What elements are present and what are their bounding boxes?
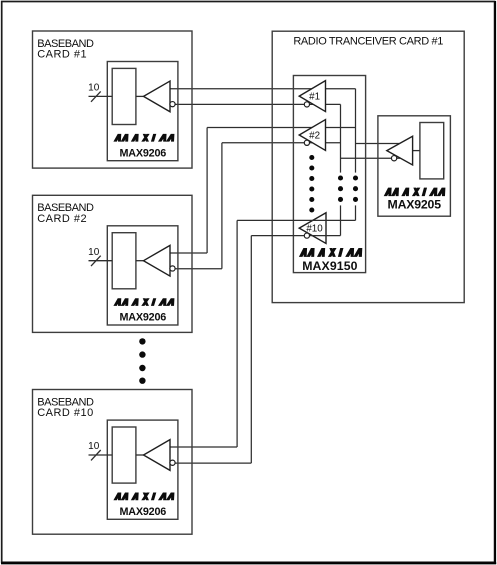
wire block to receiver U10 xyxy=(136,454,144,456)
differential pair wire card #1 bottom (MAX9150 #1 out- to U1 in-) xyxy=(175,103,340,105)
LVDS receiver triangle U10 xyxy=(144,440,171,471)
driver triangle #10 in MAX9150 xyxy=(299,213,326,244)
svg-text:10: 10 xyxy=(88,247,100,258)
LVDS receiver triangle U1 xyxy=(144,81,171,112)
svg-text:MAX9206: MAX9206 xyxy=(119,312,166,324)
differential pair wire card #1 top (MAX9150 #1 out+ to U1 in+) xyxy=(170,88,356,90)
svg-text:CARD #2: CARD #2 xyxy=(37,213,87,225)
differential pair wire card #2 bottom xyxy=(175,143,340,269)
svg-text:MAX9206: MAX9206 xyxy=(119,147,166,159)
inverting input bubble U2 xyxy=(170,266,175,271)
repeater U4 MAX9150 outline xyxy=(293,76,365,273)
inverting input bubble U10 xyxy=(170,460,175,465)
output bubble driver #1 xyxy=(304,102,309,107)
svg-text:RADIO TRANCEIVER CARD #1: RADIO TRANCEIVER CARD #1 xyxy=(293,36,443,48)
svg-text:#10: #10 xyxy=(306,224,323,235)
svg-text:CARD #10: CARD #10 xyxy=(37,407,94,419)
serial input wire MAX9205 to bus top xyxy=(356,143,400,145)
wire block to receiver U1 xyxy=(136,95,144,97)
driver triangle U5 MAX9205 xyxy=(387,136,413,165)
MAXIM logo card #1 xyxy=(113,134,174,142)
wire block to receiver U2 xyxy=(136,260,144,262)
ellipsis dots bus line + xyxy=(353,175,358,202)
svg-text:10: 10 xyxy=(88,83,100,94)
label BASEBAND CARD #10 xyxy=(37,396,94,419)
driver triangle #2 in MAX9150 xyxy=(299,120,325,151)
MAXIM logo MAX9150 xyxy=(299,248,362,257)
differential pair wire card #2 top xyxy=(170,128,356,254)
input bus line + (node A) xyxy=(355,89,357,221)
MAXIM logo card #2 xyxy=(113,298,174,306)
bus-width slash U1 xyxy=(91,91,101,101)
svg-text:MAX9206: MAX9206 xyxy=(119,506,166,518)
MAXIM logo MAX9205 xyxy=(384,188,446,197)
output bubble driver #10 xyxy=(304,233,309,238)
serial input wire MAX9205 to bus bottom xyxy=(341,157,401,159)
label BASEBAND CARD #1 xyxy=(37,38,94,61)
10-bit parallel bus stub into U2 xyxy=(89,260,113,262)
ellipsis dots baseband cards 3-9 xyxy=(139,338,145,384)
svg-text:10: 10 xyxy=(88,441,100,452)
svg-text:MAX9150: MAX9150 xyxy=(302,259,357,273)
deserializer U10 MAX9206 outline xyxy=(107,420,178,519)
output bubble U5 xyxy=(391,156,396,161)
wire serializer block to driver U5 xyxy=(413,150,420,152)
differential pair wire card #10 bottom xyxy=(175,236,340,464)
driver triangle #1 in MAX9150 xyxy=(299,81,325,112)
10-bit parallel bus stub into U10 xyxy=(89,454,113,456)
radio tranceiver card #1 box xyxy=(272,31,464,302)
ellipsis dots drivers 3-9 xyxy=(309,155,314,213)
label BASEBAND CARD #2 xyxy=(37,202,94,225)
baseband card #2 box xyxy=(33,195,193,332)
MAXIM logo card #10 xyxy=(113,493,174,501)
input bus line - (node B) xyxy=(340,104,342,235)
LVDS receiver triangle U2 xyxy=(144,245,171,276)
svg-text:CARD #1: CARD #1 xyxy=(37,49,87,61)
parallel interface block of U10 xyxy=(112,427,136,483)
differential pair wire card #10 top xyxy=(170,220,356,447)
deserializer U1 MAX9206 outline xyxy=(107,62,178,161)
parallel interface block of U5 xyxy=(420,123,444,179)
svg-text:#1: #1 xyxy=(309,92,320,103)
bus-width slash U10 xyxy=(91,450,101,460)
baseband card #1 box xyxy=(33,31,193,168)
inverting input bubble U1 xyxy=(170,102,175,107)
svg-text:#2: #2 xyxy=(309,131,320,142)
output bubble driver #2 xyxy=(304,140,309,145)
parallel interface block of U1 xyxy=(112,68,136,124)
serializer U5 MAX9205 outline xyxy=(378,116,451,216)
ellipsis dots bus line - xyxy=(338,175,343,202)
10-bit parallel bus stub into U1 xyxy=(89,95,113,97)
baseband card #10 box xyxy=(33,390,193,535)
svg-text:MAX9205: MAX9205 xyxy=(388,198,442,212)
parallel interface block of U2 xyxy=(112,233,136,289)
bus-width slash U2 xyxy=(91,256,101,266)
deserializer U2 MAX9206 outline xyxy=(107,226,178,325)
